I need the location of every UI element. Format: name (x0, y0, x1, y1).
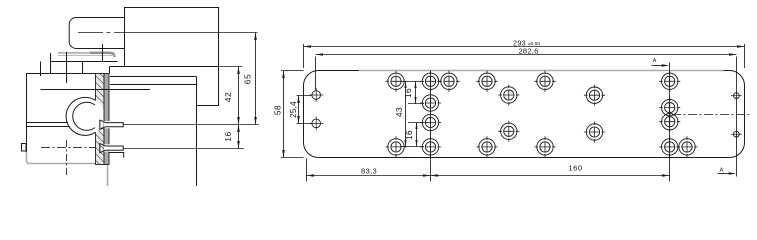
hole H10 (659, 97, 680, 118)
box bottom edge (110, 66, 219, 68)
lower screw slot (104, 144, 124, 151)
hole H15 (385, 136, 406, 157)
svg-text:43: 43 (395, 107, 404, 117)
hole H7 (420, 92, 441, 113)
slide channel (110, 77, 197, 85)
hole H5 (534, 71, 555, 92)
small hole right bottom (731, 131, 742, 137)
top cylinder body (69, 18, 124, 49)
arm plates (51, 61, 118, 63)
corner hole left bottom (309, 116, 323, 130)
omega arch outer (67, 97, 105, 135)
dim 293 (304, 46, 745, 48)
hole H9 (584, 85, 605, 106)
extension line top (65) (120, 32, 258, 34)
dim 25,4 extension (297, 96, 312, 124)
hole H19 (659, 136, 680, 157)
corner hole left top (309, 88, 323, 102)
body vertical centerline (66, 140, 68, 177)
dim 25,4 (298, 96, 300, 124)
hole H6 (659, 71, 680, 92)
dim 83,3 and 160 (307, 175, 670, 177)
dim 282,6 (316, 54, 737, 56)
omega arch inner (73, 102, 95, 130)
dark gray seal bar (90, 53, 115, 57)
svg-text:65: 65 (242, 74, 252, 85)
svg-text:A: A (720, 168, 724, 174)
upper screw slot (104, 121, 124, 128)
svg-text:16: 16 (405, 130, 414, 140)
lower screw centerline (41, 146, 95, 148)
dim 42 (238, 67, 240, 125)
dim 58 (283, 71, 285, 158)
hole H2 (420, 71, 441, 92)
hole H13 (584, 121, 605, 142)
plate outline (304, 71, 745, 158)
dim 65 (255, 33, 257, 125)
pivot line across plate (96, 89, 151, 91)
light gray line lower (58, 54, 116, 56)
bottom bracket step (109, 153, 124, 158)
dim 282,6 extension (316, 57, 737, 177)
hole H12 (498, 121, 519, 142)
hole H4 (476, 71, 497, 92)
extension line 42 top (219, 66, 243, 68)
extension line screws (123, 125, 259, 149)
hole H14 (659, 111, 680, 132)
lower screw (100, 144, 123, 153)
mounting plate section (hatched) (96, 74, 105, 165)
plate right edge upper (109, 67, 111, 74)
dim 58 extension (281, 71, 304, 158)
svg-text:16: 16 (223, 131, 233, 142)
hole H17 (476, 136, 497, 157)
upper screw (100, 120, 123, 129)
hole H18 (534, 136, 555, 157)
dim 16 top (415, 82, 417, 104)
plate centerline right (672, 114, 750, 116)
dim 16 (238, 125, 240, 149)
cylinder centerline (78, 32, 120, 34)
svg-text:160: 160 (568, 163, 582, 172)
hole H3 (438, 71, 459, 92)
hole H1 (385, 71, 406, 92)
hole H20 (676, 136, 697, 157)
gray shadow strip under cylinder (58, 52, 90, 54)
svg-text:25,4: 25,4 (289, 101, 298, 118)
main body (27, 74, 96, 157)
section mark A top (652, 65, 665, 67)
studs (41, 44, 103, 83)
section mark A bottom (718, 173, 731, 175)
plate top edge gray (359, 70, 724, 72)
valve tab (22, 144, 27, 152)
body bottom gray outline (27, 152, 108, 186)
dim 293 extension lines (304, 44, 745, 68)
dim 16 bottom (416, 123, 418, 147)
back plate gray band (104, 74, 109, 165)
hole H16 (420, 136, 441, 157)
dim 43 (405, 82, 407, 147)
column dim extensions (400, 82, 426, 147)
svg-text:58: 58 (273, 105, 283, 115)
svg-text:282,6: 282,6 (519, 47, 539, 56)
svg-text:83,3: 83,3 (361, 166, 377, 175)
door edge line (196, 77, 198, 187)
small hole right top (731, 93, 742, 99)
hole H8 (498, 84, 519, 105)
svg-text:42: 42 (223, 92, 233, 103)
arm box (125, 8, 219, 106)
svg-text:A: A (653, 58, 657, 64)
body split lines (41, 89, 151, 91)
bottom dim extensions (307, 63, 670, 182)
hole H11 (420, 112, 441, 133)
